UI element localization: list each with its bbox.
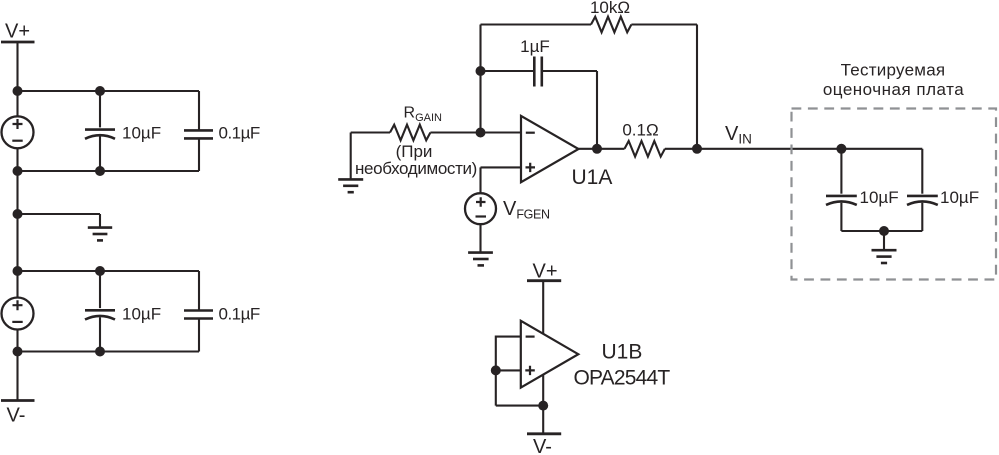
node [476, 66, 486, 76]
wire top rail 1 [18, 90, 200, 92]
node [879, 226, 889, 236]
ground (RGAIN input) [338, 133, 363, 193]
svg-text:V+: V+ [533, 261, 558, 283]
wire feedback top [481, 23, 592, 25]
wire top rail 2 [18, 270, 200, 272]
capacitor C5 1µF [481, 57, 598, 149]
voltage source V2 [2, 298, 34, 330]
capacitor C1 10µF [85, 91, 115, 171]
wire [665, 148, 922, 150]
wire bottom rail 2 [18, 350, 200, 352]
node [13, 347, 23, 357]
svg-text:10µF: 10µF [940, 188, 979, 207]
svg-text:10µF: 10µF [860, 188, 899, 207]
wire bottom [496, 405, 543, 407]
wire ground tap [18, 214, 101, 227]
svg-text:1µF: 1µF [520, 37, 550, 56]
node [95, 86, 105, 96]
wire [16, 148, 18, 171]
node [13, 86, 23, 96]
capacitor C2 0.1µF [184, 91, 213, 171]
node [95, 266, 105, 276]
V+ rail (U1B) [527, 261, 561, 283]
capacitor C6 10µF [826, 149, 857, 231]
capacitor C3 10µF [85, 271, 115, 352]
ground (VFGEN) [468, 253, 493, 266]
svg-text:0.1µF: 0.1µF [219, 124, 260, 143]
svg-text:10µF: 10µF [122, 124, 161, 143]
node [836, 144, 846, 154]
note text [355, 142, 477, 178]
evaluation board dashed box [792, 109, 997, 280]
wire [16, 42, 18, 116]
svg-text:Тестируемая: Тестируемая [841, 61, 946, 80]
wire [16, 330, 18, 401]
V+ rail (left supply) [1, 21, 35, 43]
svg-text:V-: V- [7, 405, 26, 427]
svg-text:VFGEN: VFGEN [503, 198, 550, 222]
svg-text:U1B: U1B [602, 341, 643, 364]
resistor R2 0.1Ω [625, 141, 665, 157]
node [491, 365, 501, 375]
node [13, 209, 23, 219]
ground (board) [872, 250, 897, 263]
V- rail (U1B) [527, 434, 561, 455]
capacitor C4 0.1µF [184, 271, 213, 352]
wire [351, 131, 390, 133]
svg-text:необходимости): необходимости) [355, 159, 477, 178]
op-amp U1A [521, 116, 579, 182]
wire [542, 375, 544, 434]
wire output [579, 148, 625, 150]
ground [88, 228, 112, 241]
wire [696, 25, 698, 149]
resistor RGAIN [390, 125, 430, 141]
svg-text:VIN: VIN [725, 123, 752, 146]
wire noninverting input [481, 166, 522, 168]
wire [631, 23, 697, 25]
svg-text:V-: V- [533, 436, 552, 455]
voltage source V1 [2, 116, 34, 148]
svg-text:0.1Ω: 0.1Ω [622, 121, 658, 140]
wire [479, 25, 481, 133]
node [538, 401, 548, 411]
node [95, 347, 105, 357]
capacitor C7 10µF [907, 149, 938, 231]
wire inverting input loop [496, 337, 521, 406]
wire noninverting input [496, 369, 521, 371]
svg-text:0.1µF: 0.1µF [219, 304, 260, 323]
resistor R1 10kΩ [591, 17, 631, 33]
wire [479, 167, 481, 193]
wire [883, 231, 885, 250]
wire [841, 230, 922, 232]
svg-text:OPA2544T: OPA2544T [574, 367, 671, 390]
node output [592, 144, 602, 154]
svg-text:U1A: U1A [572, 166, 613, 189]
svg-text:оценочная плата: оценочная плата [823, 80, 964, 99]
box title [823, 61, 964, 99]
svg-text:10kΩ: 10kΩ [590, 0, 630, 17]
wire bottom rail 1 [18, 170, 200, 172]
wire [430, 131, 521, 133]
svg-text:RGAIN: RGAIN [404, 105, 443, 124]
op-amp U1B [521, 321, 579, 388]
node [95, 166, 105, 176]
node VIN [692, 144, 702, 154]
V- rail (left supply) [1, 401, 35, 427]
node [13, 266, 23, 276]
node [13, 166, 23, 176]
wire [542, 281, 544, 335]
wire [479, 224, 481, 252]
svg-text:V+: V+ [5, 21, 30, 43]
wire [16, 171, 18, 298]
node inverting input [476, 128, 486, 138]
source VFGEN [465, 193, 496, 224]
svg-text:10µF: 10µF [122, 304, 161, 323]
